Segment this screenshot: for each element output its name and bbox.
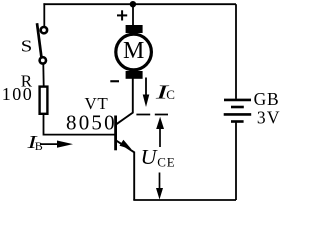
label minus (110, 80, 119, 82)
wire resistor down and right to base (44, 114, 115, 135)
motor M body (116, 34, 152, 70)
svg-text:U: U (141, 145, 159, 169)
svg-text:C: C (166, 87, 175, 102)
voltage arrow UCE down (156, 173, 163, 200)
transistor emitter arrowhead (120, 140, 132, 150)
transistor emitter lead (116, 141, 134, 200)
resistor R (40, 87, 48, 114)
svg-text:CE: CE (157, 155, 175, 170)
transistor VT base bar (114, 116, 117, 151)
motor bottom brush (126, 71, 143, 79)
svg-text:M: M (123, 38, 144, 64)
dashed reference line at collector (136, 114, 168, 116)
svg-text:S: S (21, 37, 33, 56)
motor top brush (126, 25, 143, 33)
svg-text:B: B (35, 139, 43, 153)
svg-text:GB: GB (254, 89, 280, 109)
battery GB wire top (235, 4, 237, 99)
wire left vertical to switch (43, 3, 45, 26)
transistor collector lead (116, 78, 132, 124)
motor M wire from junction (132, 4, 134, 25)
battery GB wire bottom (235, 123, 237, 201)
wire switch to resistor (42, 64, 44, 86)
current arrow IC (143, 78, 150, 108)
svg-text:100: 100 (2, 84, 34, 104)
voltage arrow UCE up (156, 117, 164, 147)
battery GB plates (224, 100, 252, 122)
svg-text:3V: 3V (257, 108, 281, 128)
svg-text:8050: 8050 (66, 111, 117, 135)
label plus (117, 10, 127, 20)
wire top horizontal (43, 3, 236, 5)
wire bottom horizontal (133, 199, 236, 201)
switch S (37, 23, 47, 63)
current arrow IB (40, 141, 73, 148)
node junction dot at motor top (130, 1, 136, 7)
